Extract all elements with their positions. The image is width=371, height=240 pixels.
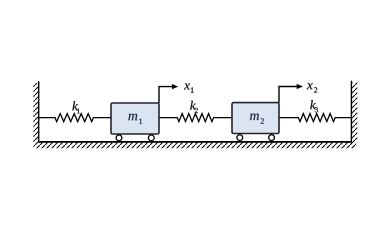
spring k2 — [159, 114, 232, 122]
ground hatch — [34, 143, 357, 149]
label k3 — [310, 100, 316, 109]
left wall line — [38, 81, 40, 143]
ground line — [38, 141, 352, 143]
spring k3 — [279, 114, 351, 122]
wheel m1 right — [148, 135, 154, 141]
label x2 — [307, 83, 313, 89]
label m1 — [128, 114, 137, 121]
label k1 — [72, 101, 78, 110]
spring k1 — [39, 114, 111, 122]
arrow x2 — [279, 87, 298, 103]
label m2 — [250, 113, 259, 120]
right wall line — [350, 81, 352, 143]
left wall hatch — [33, 83, 38, 143]
arrow x1 — [159, 87, 174, 103]
right wall hatch — [352, 83, 357, 143]
mass m2 box — [232, 103, 279, 134]
wheel m2 right — [269, 135, 275, 141]
label x1 — [184, 83, 190, 89]
wheel m2 left — [237, 135, 243, 141]
mass m1 box — [111, 103, 159, 134]
label k2 — [190, 101, 196, 110]
wheel m1 left — [116, 135, 122, 141]
